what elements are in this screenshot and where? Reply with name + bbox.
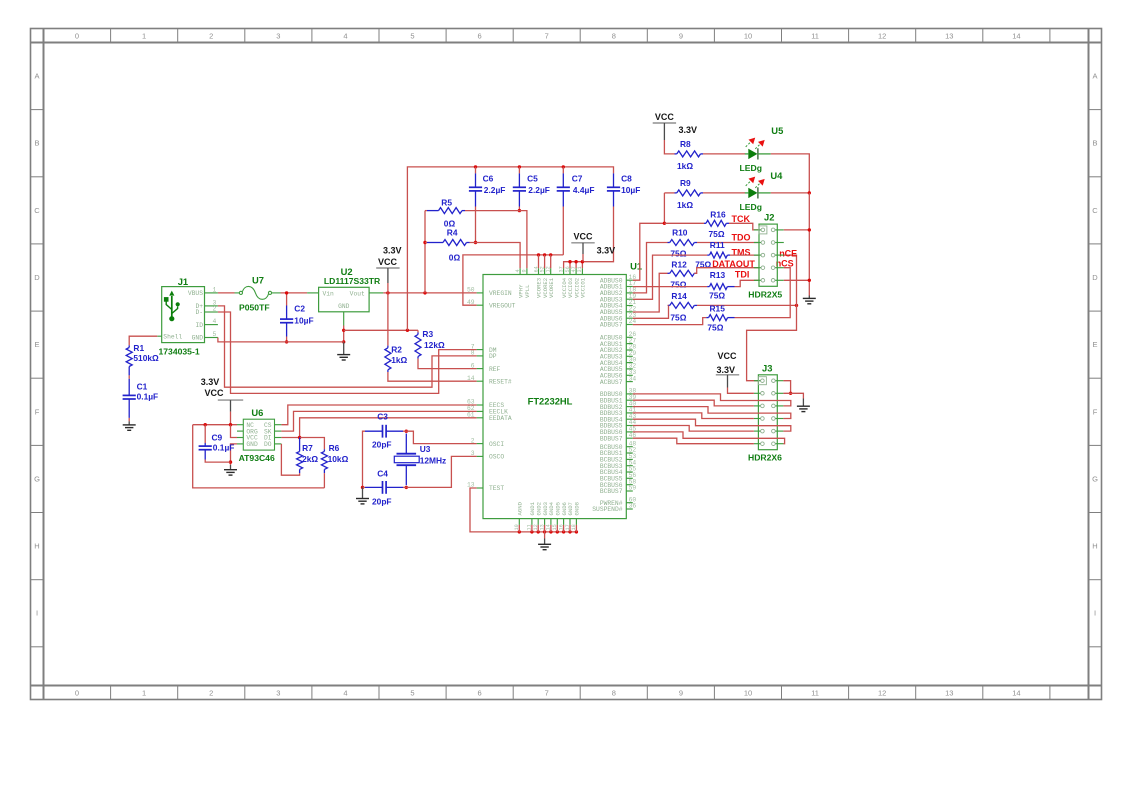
svg-text:REF: REF	[489, 366, 501, 373]
junction TCK R9 node	[663, 222, 666, 225]
svg-text:U3: U3	[420, 444, 431, 454]
ground symbol right of J2	[803, 298, 816, 303]
svg-text:R8: R8	[680, 139, 691, 149]
connector J2 box	[759, 224, 777, 286]
svg-text:BDBUS7: BDBUS7	[600, 435, 623, 442]
svg-text:RESET#: RESET#	[489, 378, 512, 385]
wire fuse to U2 Vin	[281, 292, 308, 294]
U6 pin stubs	[237, 425, 281, 444]
frame row labels left	[34, 72, 40, 618]
svg-text:C7: C7	[572, 174, 583, 184]
svg-text:C8: C8	[621, 174, 632, 184]
gnd stem right rail	[808, 296, 810, 299]
svg-text:7: 7	[545, 32, 549, 41]
wire C8 to VCCIO line	[582, 207, 613, 262]
svg-text:C3: C3	[377, 411, 388, 421]
svg-text:F: F	[35, 407, 40, 416]
svg-text:BCBUS7: BCBUS7	[600, 488, 623, 495]
capacitor C7	[562, 173, 564, 187]
svg-text:AT93C46: AT93C46	[239, 453, 275, 463]
svg-text:4.4µF: 4.4µF	[573, 185, 595, 195]
U1 left pin numbers	[467, 287, 475, 489]
junction VCORE1	[549, 253, 552, 256]
gnd stem below U6	[230, 465, 232, 470]
junction GND rail drop	[406, 329, 409, 332]
svg-text:nCE: nCE	[779, 248, 797, 258]
U1 top pin names	[517, 277, 586, 298]
svg-text:DO: DO	[264, 441, 272, 448]
svg-text:GND: GND	[192, 335, 204, 342]
svg-text:TDO: TDO	[732, 233, 751, 243]
capacitor C8	[613, 173, 615, 187]
svg-text:R15: R15	[710, 304, 726, 314]
ground symbol below C1	[123, 425, 136, 430]
J2 pin circles	[761, 228, 775, 282]
junction VCCIO2	[574, 260, 577, 263]
resistor R4	[443, 240, 467, 246]
svg-text:1kΩ: 1kΩ	[677, 200, 693, 210]
ground symbol below U2	[337, 355, 350, 360]
ic U6 AT93C46 box	[243, 419, 274, 450]
ground symbol right of J3	[797, 406, 810, 411]
junction crystal top	[405, 430, 408, 433]
junction VCCIO1	[581, 260, 584, 263]
wire ADBUS2 to R10	[633, 243, 668, 293]
wire J1 D- to U1 DM	[218, 312, 477, 393]
svg-text:ID: ID	[195, 322, 203, 329]
svg-text:D-: D-	[195, 309, 203, 316]
wire C2 top to Vin line	[286, 293, 288, 306]
svg-text:C2: C2	[294, 304, 305, 314]
svg-text:2: 2	[213, 306, 217, 313]
svg-text:Vout: Vout	[350, 291, 365, 298]
resistor R1	[126, 348, 132, 367]
svg-text:ACBUS7: ACBUS7	[600, 379, 623, 386]
svg-text:VCC: VCC	[573, 231, 593, 241]
junction C5 bottom	[518, 209, 521, 212]
J1 pin stubs	[157, 293, 218, 338]
wire gnd bus under U1	[519, 531, 576, 533]
svg-text:DP: DP	[489, 353, 497, 360]
junction R5 drop at R4 line	[423, 241, 426, 244]
wire J2 pin10 to gnd rail	[784, 279, 810, 281]
wire R11 to J2 pin5	[730, 254, 759, 256]
junction rail C7	[562, 165, 565, 168]
wire LED U5 to gnd rail	[771, 154, 810, 193]
wire rail stub to C5	[518, 167, 520, 174]
resistor R10	[670, 240, 695, 246]
svg-text:VCC: VCC	[378, 257, 398, 267]
ground symbol crystal gnd	[356, 499, 369, 504]
svg-text:R16: R16	[710, 210, 726, 220]
svg-text:U5: U5	[771, 125, 783, 136]
wire R15 to J2 pin8 nCS	[735, 268, 791, 318]
svg-text:VCORE1: VCORE1	[548, 277, 555, 298]
wire DI line to R6	[300, 438, 325, 450]
wire VCCIO3 stub	[569, 262, 571, 269]
gnd stem below U2	[343, 342, 345, 355]
wire J1 D+ to U1 DP	[218, 306, 477, 387]
U1 right pin names	[592, 277, 622, 513]
svg-text:ADBUS7: ADBUS7	[600, 322, 623, 329]
svg-text:HDR2X6: HDR2X6	[748, 452, 782, 462]
J3 pin1 square	[758, 377, 766, 385]
wire R9 left lead	[664, 192, 674, 194]
wire U1 EECLK to U6 SK	[281, 411, 476, 431]
svg-text:10: 10	[744, 32, 752, 41]
wire C2 bottom to GND line	[286, 337, 288, 342]
gnd stem below C4 left	[362, 487, 364, 498]
wire VCC NC line	[193, 424, 237, 426]
resistor R7	[297, 451, 303, 469]
wire ADBUS6 to R14	[633, 305, 669, 318]
svg-text:J2: J2	[764, 211, 774, 222]
svg-text:C1: C1	[137, 382, 148, 392]
svg-text:5: 5	[213, 331, 217, 338]
U2 pin stubs	[307, 293, 383, 326]
svg-text:U4: U4	[770, 170, 783, 181]
wire GND line corner to R3	[417, 330, 419, 332]
J3 pin circles	[761, 379, 776, 446]
junction DI R7 node	[298, 436, 301, 439]
svg-text:75Ω: 75Ω	[670, 249, 686, 259]
wire VCC to R8	[664, 140, 674, 154]
svg-text:U6: U6	[251, 407, 263, 418]
U1 top pin numbers	[515, 266, 583, 272]
svg-text:12MHz: 12MHz	[420, 455, 447, 465]
svg-text:G: G	[34, 474, 40, 483]
wire R5 line left	[425, 210, 427, 212]
wire C4 left stub	[363, 486, 366, 488]
LED U5	[745, 138, 771, 160]
svg-text:R6: R6	[329, 443, 340, 453]
wire R9 left drop to TCK line	[663, 193, 665, 223]
svg-text:1: 1	[142, 32, 146, 41]
wire U1 EEDATA to U6 DI	[281, 418, 476, 438]
svg-text:10: 10	[744, 689, 752, 698]
junction J2 pin10 gnd	[808, 279, 811, 282]
svg-text:Vin: Vin	[323, 291, 335, 298]
svg-text:0.1µF: 0.1µF	[213, 443, 235, 453]
capacitor C3	[365, 430, 383, 432]
wire R4 right to VPHY	[470, 243, 521, 269]
svg-text:9: 9	[522, 269, 528, 272]
svg-text:2: 2	[209, 689, 213, 698]
svg-text:AGND: AGND	[517, 501, 524, 515]
gnd stem right of J3	[802, 399, 804, 407]
wire C1 to ground	[128, 418, 130, 421]
junction VCCIO3	[568, 260, 571, 263]
wire R9 to LED U4	[703, 192, 745, 194]
svg-text:GND: GND	[338, 303, 350, 310]
svg-text:R11: R11	[710, 240, 725, 250]
svg-text:3: 3	[276, 32, 280, 41]
svg-text:12: 12	[878, 689, 886, 698]
svg-text:J1: J1	[178, 276, 188, 287]
svg-text:0.1µF: 0.1µF	[137, 392, 159, 402]
svg-text:R13: R13	[710, 270, 726, 280]
svg-text:H: H	[34, 542, 39, 551]
svg-text:R5: R5	[441, 197, 452, 207]
wire rail stub to C7	[562, 167, 564, 174]
wire VCCIO line	[564, 262, 583, 269]
wire R12 to J2 pin7	[694, 268, 759, 274]
capacitor C1	[128, 379, 130, 396]
wire nCE node up to J2 pin6	[784, 255, 797, 305]
wire GND line U2 to rail drop and R3	[344, 329, 418, 331]
svg-text:3.3V: 3.3V	[679, 125, 698, 135]
resistor R15	[709, 315, 728, 321]
U1 bottom pin names	[517, 501, 581, 515]
svg-text:4: 4	[343, 689, 347, 698]
frame row labels right	[1092, 72, 1098, 618]
wire TCK line to R16	[664, 222, 704, 224]
svg-text:20pF: 20pF	[372, 497, 392, 507]
wire R5 right to C5	[465, 210, 519, 212]
resistor R16	[706, 220, 726, 226]
svg-text:8: 8	[612, 32, 616, 41]
svg-text:0Ω: 0Ω	[449, 252, 461, 262]
svg-text:3: 3	[276, 689, 280, 698]
svg-text:3.3V: 3.3V	[717, 365, 736, 375]
wire ADBUS3 to R11	[633, 255, 707, 299]
svg-text:P050TF: P050TF	[239, 302, 270, 312]
svg-text:11: 11	[811, 689, 819, 698]
fuse U7 P050TF	[235, 286, 281, 299]
svg-text:3.3V: 3.3V	[597, 245, 616, 255]
wire LED U4 to gnd rail	[771, 192, 810, 194]
svg-text:C5: C5	[527, 174, 538, 184]
junction rail C5	[518, 165, 521, 168]
wire R14 to nCE node	[697, 304, 797, 306]
svg-text:VCCIO1: VCCIO1	[580, 277, 587, 298]
wire R16 to J2 pin1	[729, 223, 759, 230]
LED U4	[745, 177, 771, 199]
wire U1 TEST to gnd bus	[470, 488, 519, 532]
svg-text:SUSPEND#: SUSPEND#	[592, 506, 622, 513]
svg-text:0: 0	[75, 32, 79, 41]
svg-text:A: A	[1092, 72, 1097, 81]
frame column labels bottom	[75, 689, 1021, 698]
svg-text:B: B	[34, 139, 39, 148]
junction C2 bottom	[285, 340, 288, 343]
U1 top pin stubs	[520, 268, 582, 274]
resistor R11	[710, 252, 728, 258]
wire C6 to R4 line	[475, 207, 477, 243]
svg-text:LD1117S33TR: LD1117S33TR	[324, 276, 381, 286]
svg-text:F: F	[1093, 407, 1098, 416]
svg-text:9: 9	[679, 32, 683, 41]
U1 bottom pin stubs	[519, 519, 576, 525]
U6 pin names	[246, 422, 271, 448]
J1 pin numbers	[213, 286, 217, 338]
svg-text:5: 5	[410, 32, 414, 41]
junction VCC stem on Vout line	[386, 291, 389, 294]
junction C2 top	[285, 291, 288, 294]
wire crystal bottom stub	[403, 486, 406, 488]
resistor R8	[677, 151, 701, 157]
svg-text:1734035-1: 1734035-1	[159, 347, 200, 357]
svg-text:59: 59	[629, 485, 637, 492]
svg-text:A: A	[34, 72, 39, 81]
svg-text:36: 36	[629, 503, 637, 510]
resistor R13	[710, 284, 728, 290]
wire J1 GND pin to ground bus	[218, 338, 344, 342]
svg-text:13: 13	[945, 689, 953, 698]
junction VCC stem U6	[229, 423, 232, 426]
svg-text:I: I	[1094, 609, 1096, 618]
wire C3 left down to C4	[363, 431, 366, 487]
connector J1 box	[162, 287, 205, 343]
sheet frame	[31, 29, 1102, 700]
svg-text:4: 4	[515, 269, 521, 272]
wire U6 VCC pin up	[231, 425, 238, 438]
svg-text:3.3V: 3.3V	[383, 246, 402, 256]
J1 pin names	[188, 290, 203, 342]
svg-text:VREGOUT: VREGOUT	[489, 302, 516, 309]
svg-text:2kΩ: 2kΩ	[302, 454, 318, 464]
wire J2 pin2 to gnd rail	[784, 229, 810, 231]
svg-text:VBUS: VBUS	[188, 290, 203, 297]
svg-text:VCC: VCC	[204, 388, 224, 398]
svg-text:14: 14	[1012, 32, 1020, 41]
wire crystal top stub	[403, 430, 406, 432]
wire C5 to R5 line	[518, 207, 520, 211]
J3 pin stubs	[754, 381, 784, 444]
junction U2 GND node	[342, 329, 345, 332]
wire VCC stem to VCCIO line	[582, 254, 584, 262]
svg-text:0: 0	[75, 689, 79, 698]
junctions gnd bus pins	[518, 530, 579, 533]
wire VCCIO2 stub	[575, 262, 577, 269]
regulator U2 LD1117S33TR box	[319, 287, 370, 312]
svg-text:6: 6	[478, 32, 482, 41]
wire R1 to C1	[128, 375, 130, 378]
junction R4R5 drop on Vout line	[423, 291, 426, 294]
wire ADBUS5 to R12	[633, 273, 668, 312]
svg-text:HDR2X5: HDR2X5	[748, 290, 782, 300]
wire ADBUS0 to TCK line	[633, 223, 665, 280]
junction J2 pin2 gnd	[808, 228, 811, 231]
junction U2 GND at C2 line	[342, 340, 345, 343]
wire VCORE3 pin stub up	[538, 255, 540, 268]
wire J1 Shell to R1	[129, 336, 157, 345]
junction VCORE3	[537, 253, 540, 256]
svg-text:10µF: 10µF	[621, 185, 640, 195]
J2 pin1 square	[759, 226, 767, 234]
U1 right pin numbers	[629, 274, 637, 510]
wire R3 to U1 REF	[418, 359, 477, 369]
capacitor C6	[475, 173, 477, 187]
resistor R2	[385, 348, 391, 370]
svg-text:R4: R4	[447, 227, 458, 237]
svg-text:GND8: GND8	[574, 502, 581, 515]
ground symbol below U1	[538, 544, 551, 549]
svg-text:510kΩ: 510kΩ	[133, 353, 159, 363]
svg-text:E: E	[34, 340, 39, 349]
svg-text:7: 7	[545, 689, 549, 698]
svg-text:12kΩ: 12kΩ	[424, 340, 445, 350]
junction C9 bottom	[229, 460, 232, 463]
capacitor C4	[365, 486, 383, 488]
svg-text:GND: GND	[246, 441, 258, 448]
svg-text:12: 12	[878, 32, 886, 41]
wire OSCO net	[406, 456, 476, 487]
wire nCE node down to J3 pin1	[747, 305, 797, 380]
svg-text:13: 13	[945, 32, 953, 41]
svg-text:VCC: VCC	[717, 351, 737, 361]
svg-text:OSCI: OSCI	[489, 441, 504, 448]
svg-text:I: I	[36, 609, 38, 618]
svg-text:D: D	[1092, 273, 1098, 282]
capacitor C2	[286, 306, 288, 320]
svg-text:1kΩ: 1kΩ	[391, 355, 407, 365]
svg-text:10kΩ: 10kΩ	[328, 454, 349, 464]
svg-text:11: 11	[811, 32, 819, 41]
wire VBUS J1 to fuse	[218, 292, 235, 294]
svg-text:R12: R12	[671, 259, 687, 269]
wire OSCI net	[406, 431, 476, 443]
svg-text:2.2µF: 2.2µF	[528, 185, 550, 195]
svg-text:TCK: TCK	[732, 214, 751, 224]
resistor R5	[439, 208, 463, 214]
svg-text:C: C	[34, 206, 40, 215]
svg-text:U7: U7	[252, 275, 264, 286]
svg-text:75Ω: 75Ω	[670, 279, 686, 289]
svg-text:VREGIN: VREGIN	[489, 290, 512, 297]
svg-text:LEDg: LEDg	[740, 163, 762, 173]
junction C9 top	[204, 423, 207, 426]
svg-text:C6: C6	[483, 174, 494, 184]
svg-text:E: E	[1092, 340, 1097, 349]
svg-text:Shell: Shell	[163, 333, 182, 340]
wire ADBUS7 to R15	[633, 318, 707, 325]
wire U2 GND down	[343, 326, 345, 342]
wire VCC stem to Vout line	[387, 283, 389, 293]
wire VCC-NC loop left and bottom	[193, 425, 325, 488]
wires BDBUS0-7 to J3	[633, 394, 791, 444]
wire R2 to U1 RESET#	[388, 372, 477, 381]
svg-text:VPLL: VPLL	[524, 285, 531, 298]
svg-text:5: 5	[410, 689, 414, 698]
wire U2 Vout 3.3V rail to U1 VREGIN	[383, 292, 476, 294]
resistor R12	[670, 270, 695, 276]
wire R6 bottom to loop	[323, 473, 325, 488]
wire U1 EECS to U6 CS	[281, 405, 476, 425]
svg-text:TEST: TEST	[489, 485, 504, 492]
svg-text:1kΩ: 1kΩ	[677, 161, 693, 171]
svg-text:75Ω: 75Ω	[707, 323, 723, 333]
wire rail stub to C6	[475, 167, 477, 174]
svg-text:OSCO: OSCO	[489, 454, 504, 461]
svg-text:75Ω: 75Ω	[670, 312, 686, 322]
svg-text:R7: R7	[302, 443, 313, 453]
resistor R14	[670, 302, 695, 308]
svg-text:1: 1	[142, 689, 146, 698]
U1 left pin stubs	[477, 293, 483, 488]
svg-text:TDI: TDI	[735, 270, 750, 280]
crystal U3 12MHz	[394, 434, 419, 486]
svg-text:9: 9	[679, 689, 683, 698]
wire VCORE1 pin stub up	[550, 255, 552, 268]
wire R5 left drop	[424, 211, 426, 293]
wire Vout to R2	[387, 293, 389, 346]
wire ADBUS1 to R13 TDI line	[633, 286, 707, 288]
wire gnd rail right side	[808, 193, 810, 296]
svg-text:6: 6	[478, 689, 482, 698]
wire C9 bottom corner	[205, 460, 230, 463]
capacitor C9	[204, 443, 206, 446]
